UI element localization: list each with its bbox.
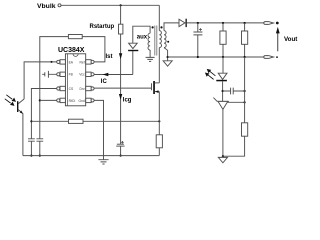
pin 7 Vcc <box>91 73 94 76</box>
ground secondary (triangle style) <box>163 61 172 66</box>
wire sense network horizontal right <box>83 120 159 122</box>
svg-text:CS: CS <box>69 87 74 91</box>
wire LED to TL431 <box>222 81 224 101</box>
label + of output capacitor <box>199 28 202 31</box>
node junction anode/ground <box>222 155 224 157</box>
svg-text:Drv: Drv <box>80 87 85 91</box>
wire top rail corner into primary <box>158 5 160 30</box>
node primary polarity dot <box>160 26 162 28</box>
inductor aux winding <box>148 33 150 50</box>
svg-text:UC384X: UC384X <box>58 47 85 54</box>
diode output rectifier cathode bar <box>186 19 187 27</box>
ground IC (bar style) <box>98 156 108 164</box>
resistor R2 pullup <box>244 23 246 31</box>
node junction R1/top rail <box>222 22 224 24</box>
wire aux winding to ground <box>149 50 151 57</box>
wire CS cap to bottom rail <box>30 141 32 155</box>
transistor optocoupler base bar <box>17 101 18 112</box>
capacitor FB pin <box>42 71 56 78</box>
wire source to sense resistor <box>158 92 160 135</box>
transistor Q1 body arrow <box>155 90 158 93</box>
optocoupler light arrow 2 <box>5 99 11 103</box>
wire top rail <box>61 4 159 6</box>
wire sense network horizontal left <box>31 120 68 122</box>
wire Gnd pin down <box>94 100 103 155</box>
node junction R2/lower rail <box>244 56 246 58</box>
capacitor Vcc top plate <box>117 143 124 145</box>
wire secondary bottom to rail <box>164 48 168 61</box>
resistor lower divider <box>242 123 248 136</box>
node junction EA wire <box>51 61 53 63</box>
pin 2 FB <box>57 73 60 76</box>
node aux polarity dot <box>152 26 154 28</box>
transistor Q1 gate bar <box>151 83 153 90</box>
diode LED optocoupler stem <box>222 57 224 73</box>
svg-text:IC: IC <box>101 79 108 85</box>
wire Rt to RtCt vertical <box>40 37 69 139</box>
node junction R2/top rail <box>244 22 246 24</box>
wire Vcc rail down to cap <box>120 75 122 145</box>
capacitor Ct plates <box>36 139 43 141</box>
svg-text:Icg: Icg <box>123 97 132 103</box>
regulator TL431 triangle <box>218 101 228 109</box>
node junction comp cap right <box>244 90 246 92</box>
regulator TL431 cathode bar <box>217 100 229 102</box>
node junction RtCt pin <box>39 99 41 101</box>
ground TL431 (triangle style) <box>222 156 224 157</box>
diode LED emission arrow 2 <box>208 75 214 80</box>
ground aux (bar style) <box>146 57 155 61</box>
resistor Rstartup <box>119 24 123 34</box>
transistor optocoupler collector <box>18 99 24 104</box>
terminal output plus <box>264 22 274 25</box>
wire Vcc pin to aux diode <box>94 74 133 76</box>
pin 3 CS <box>57 87 60 90</box>
wire output top rail <box>187 22 265 24</box>
diode LED triangle <box>218 73 227 79</box>
node output plus dot <box>276 22 279 25</box>
wire divider column <box>244 57 246 123</box>
wire aux diode anode to aux winding <box>133 26 150 43</box>
diode aux triangle <box>129 43 138 48</box>
diode aux rectifier cathode wire <box>132 51 134 75</box>
svg-text:Gnd: Gnd <box>78 99 84 103</box>
arrow IC current <box>103 73 109 76</box>
wire Drv pin to MOSFET gate <box>94 87 151 89</box>
optocoupler light arrow 1 <box>6 95 12 99</box>
diode aux cathode bar <box>128 50 138 51</box>
transformer core lines <box>155 26 157 56</box>
pin 4 RtCt <box>57 99 60 102</box>
resistor sense <box>156 135 162 148</box>
transistor optocoupler emitter arrow <box>20 111 23 114</box>
capacitor output bottom stem <box>197 35 199 57</box>
inductor secondary winding <box>164 31 166 48</box>
pin 6 Drv <box>91 87 94 90</box>
wire sense resistor to bottom rail <box>158 148 160 156</box>
op-amp U1 inner left line <box>67 54 69 106</box>
capacitor compensation <box>223 88 245 95</box>
wire Rstartup top <box>120 5 122 24</box>
terminal output minus <box>264 56 274 59</box>
node output minus dot <box>276 56 278 58</box>
capacitor output plates <box>193 32 202 35</box>
wire Ref pin loop with Rt <box>82 37 105 62</box>
capacitor output top stem <box>197 23 199 32</box>
node junction CS/sense wire <box>30 120 32 122</box>
node junction cap/top rail <box>197 22 199 24</box>
node junction cap/bottom rail <box>120 155 122 157</box>
node secondary polarity dot <box>167 41 169 43</box>
node junction CS cap/bottom rail <box>30 155 32 157</box>
diode LED emission arrow 1 <box>210 71 216 76</box>
wire TL431 anode down <box>222 109 224 156</box>
svg-text:Rstartup: Rstartup <box>90 24 115 30</box>
wire bottom rail <box>23 155 159 157</box>
wire output lower rail <box>168 56 266 58</box>
wire EA pin to optocoupler collector <box>24 62 57 99</box>
resistor R1 upper divider <box>222 23 224 31</box>
label + of Vcc capacitor <box>121 141 124 144</box>
node junction ref/divider <box>244 101 246 103</box>
transistor optocoupler emitter <box>18 110 23 156</box>
transistor Q1 source stub <box>155 91 159 93</box>
node junction Ct/bottom rail <box>39 155 41 157</box>
svg-text:Vbulk: Vbulk <box>37 3 56 10</box>
pin 5 Gnd <box>91 99 94 102</box>
regulator TL431 tail <box>213 98 217 102</box>
arrow Vout <box>277 33 279 51</box>
transistor Q1 channel bar <box>153 81 155 94</box>
svg-text:Ist: Ist <box>106 54 113 60</box>
resistor CS series <box>69 119 84 123</box>
node junction top rail / Rstartup <box>120 4 122 6</box>
node junction LED/lower rail <box>222 56 224 58</box>
op-amp U1 body <box>65 54 85 106</box>
capacitor Vcc bottom plate <box>116 145 124 147</box>
wire primary bottom to drain <box>158 48 160 83</box>
node Vbulk terminal circle <box>58 4 61 7</box>
wire Rstartup to Vcc node <box>120 34 122 75</box>
pin 1 EA <box>57 60 60 63</box>
svg-text:RtCt: RtCt <box>69 99 76 103</box>
wire secondary top to diode <box>164 23 179 31</box>
pin 8 Ref <box>91 60 94 63</box>
svg-text:Vcc: Vcc <box>79 73 85 77</box>
wire Vcc cap to ground rail <box>120 146 122 156</box>
node junction secondary/lower rail <box>167 56 169 58</box>
svg-text:Ref: Ref <box>80 60 85 64</box>
node junction comp cap <box>222 90 224 92</box>
svg-text:aux: aux <box>137 34 148 40</box>
wire Ct to bottom rail <box>39 141 41 155</box>
arrow Icg current <box>119 94 122 100</box>
node junction sense wire/source <box>158 120 160 122</box>
wire TL431 ref <box>227 101 244 103</box>
diode LED cathode bar <box>216 80 227 82</box>
wire RtCt pin <box>40 99 57 101</box>
arrow Ist current <box>119 53 122 59</box>
diode output rectifier triangle <box>179 19 185 26</box>
op-amp U1 top notch <box>73 54 78 57</box>
wire CS pin down <box>31 89 56 139</box>
resistor Rt <box>68 35 82 39</box>
node junction cap/lower rail <box>197 56 199 58</box>
svg-text:Vout: Vout <box>284 36 297 43</box>
inductor primary winding <box>159 31 161 48</box>
capacitor CS filter plates <box>28 139 35 141</box>
transistor Q1 drain stub <box>155 82 159 84</box>
wire divider to ground wire <box>223 136 245 156</box>
